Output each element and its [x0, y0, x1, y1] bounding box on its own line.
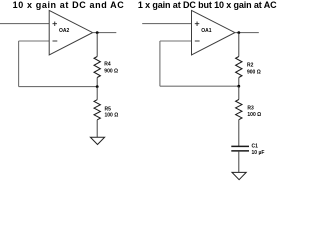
ground (right) — [232, 172, 246, 179]
wire: right feedback bottom horizontal — [160, 85, 239, 87]
wire: left feedback vertical — [18, 41, 20, 87]
wire: output down to R2 — [238, 33, 240, 57]
wire: C1 to ground — [238, 152, 240, 173]
svg-text:R2: R2 — [247, 63, 254, 69]
wire: R2 to junction — [238, 78, 240, 87]
node: R4/R5 junction — [96, 85, 99, 88]
node: left output junction — [96, 31, 99, 34]
ground (left) — [90, 137, 104, 144]
wire: right + input — [142, 23, 191, 25]
svg-text:C1: C1 — [252, 144, 259, 150]
svg-text:100 Ω: 100 Ω — [247, 112, 261, 118]
capacitor C1 top plate — [231, 145, 249, 147]
op-amp OA2 — [49, 10, 92, 55]
svg-text:OA2: OA2 — [59, 28, 70, 34]
op-amp OA1 plus marker — [195, 22, 200, 27]
node: R2/R3 junction — [237, 85, 240, 88]
resistor R4 — [94, 57, 100, 78]
wire: right feedback vertical — [159, 41, 161, 86]
svg-text:900 Ω: 900 Ω — [104, 68, 118, 74]
resistor R3 — [236, 100, 242, 120]
wire: R5 to ground — [96, 120, 98, 137]
wire: right output — [235, 32, 259, 34]
op-amp OA1 minus marker — [195, 40, 200, 42]
svg-text:10 x gain at DC and AC: 10 x gain at DC and AC — [13, 0, 125, 10]
wire: right - input — [160, 40, 192, 42]
wire: output down to R4 — [96, 33, 98, 57]
svg-text:1 x gain at DC but 10 x gain a: 1 x gain at DC but 10 x gain at AC — [138, 0, 277, 10]
wire: left + input — [0, 23, 49, 25]
node: right output junction — [237, 31, 240, 34]
svg-text:100 Ω: 100 Ω — [105, 113, 119, 119]
wire: junction to R3 — [238, 86, 240, 99]
svg-text:900 Ω: 900 Ω — [247, 69, 261, 75]
capacitor C1 bottom plate — [231, 150, 249, 152]
svg-text:OA1: OA1 — [201, 28, 212, 34]
svg-text:R3: R3 — [247, 106, 254, 112]
op-amp OA2 minus marker — [53, 40, 58, 42]
wire: left - input — [19, 40, 49, 42]
wire: R3 to C1 — [238, 120, 240, 146]
wire: left feedback bottom horizontal — [19, 86, 98, 88]
op-amp OA2 plus marker — [53, 22, 58, 27]
op-amp OA1 — [192, 10, 235, 55]
wire: junction to R5 — [96, 87, 98, 100]
resistor R5 — [94, 100, 100, 120]
wire: left output — [93, 32, 117, 34]
svg-text:10 µF: 10 µF — [252, 150, 265, 156]
svg-text:R5: R5 — [105, 106, 112, 112]
svg-text:R4: R4 — [104, 61, 111, 67]
wire: R4 to junction — [96, 78, 98, 87]
resistor R2 — [236, 57, 242, 78]
